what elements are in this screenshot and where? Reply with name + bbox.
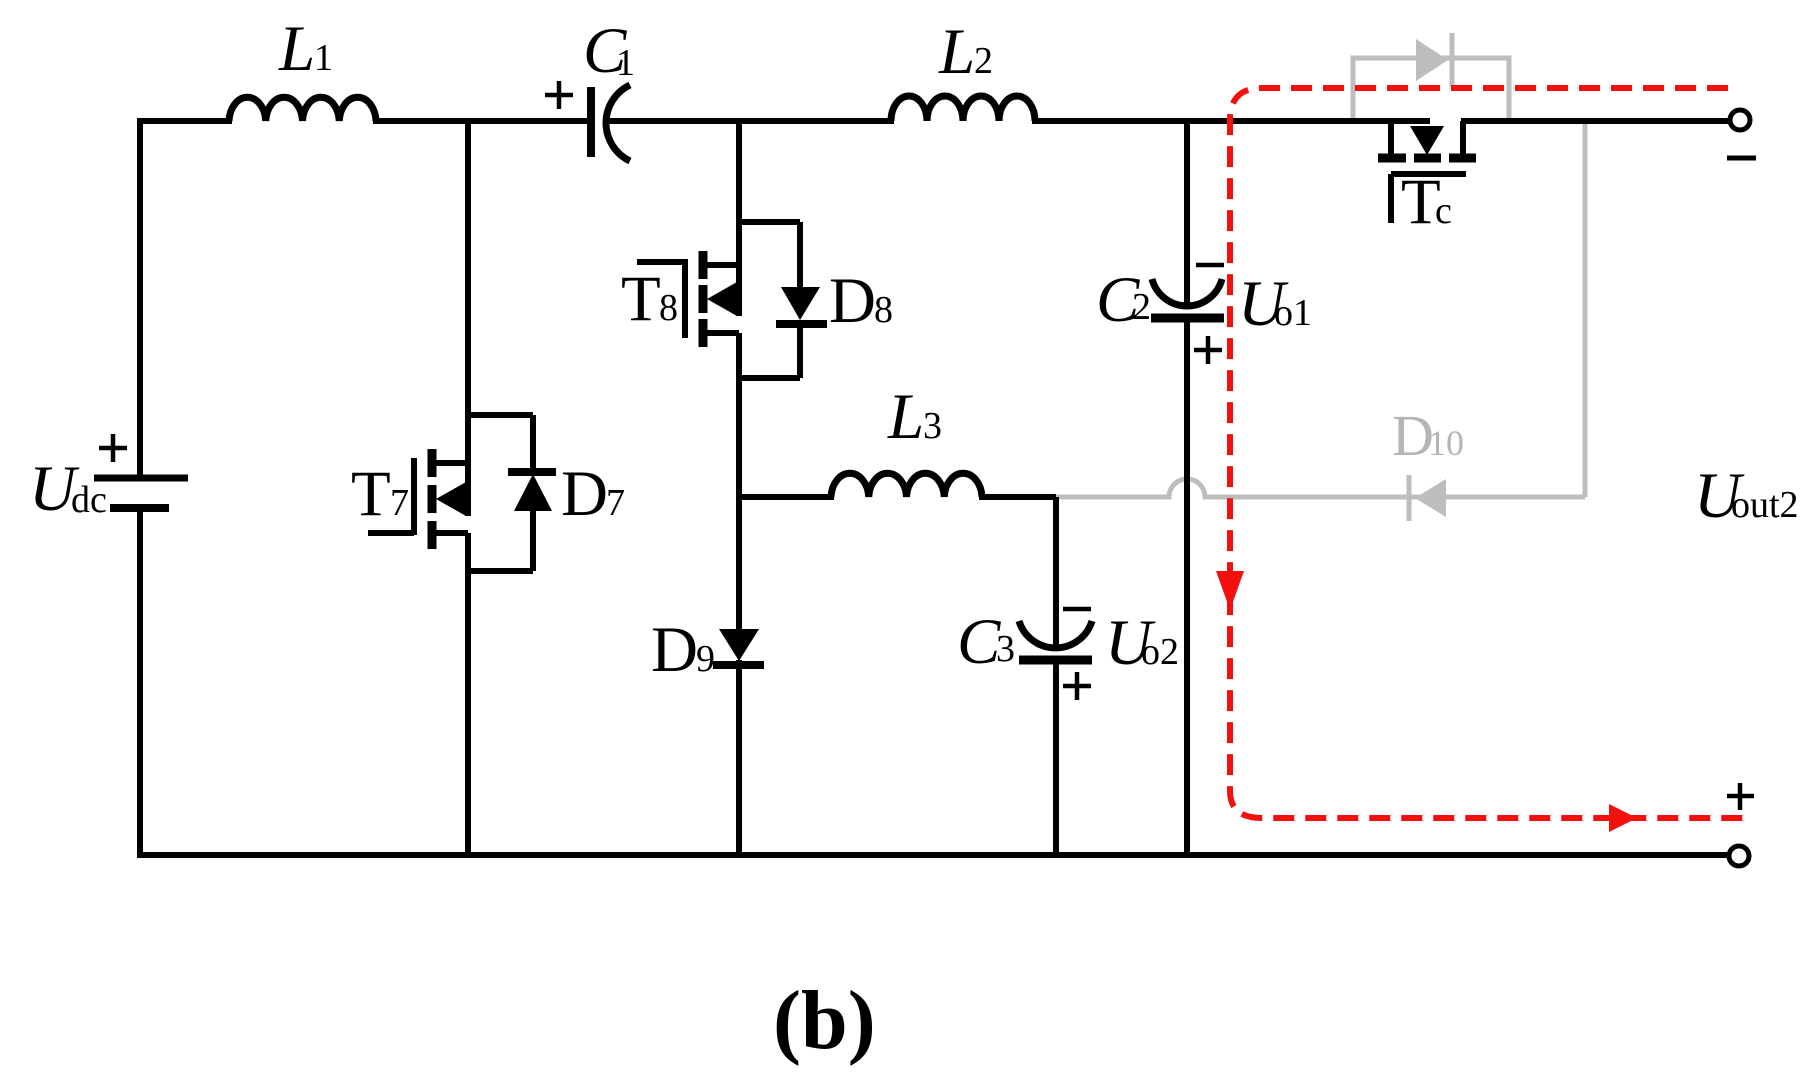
svg-text:C: C bbox=[957, 606, 1001, 678]
svg-text:L: L bbox=[887, 381, 924, 453]
svg-text:(b): (b) bbox=[773, 974, 876, 1067]
svg-text:2: 2 bbox=[1132, 286, 1151, 328]
svg-text:9: 9 bbox=[696, 638, 715, 680]
svg-text:8: 8 bbox=[874, 289, 893, 331]
svg-text:3: 3 bbox=[923, 405, 942, 447]
svg-text:c: c bbox=[1435, 190, 1452, 232]
svg-text:T: T bbox=[351, 458, 391, 530]
svg-text:3: 3 bbox=[996, 628, 1015, 670]
svg-text:L: L bbox=[938, 16, 975, 88]
svg-text:T: T bbox=[621, 263, 661, 335]
svg-text:8: 8 bbox=[659, 287, 678, 329]
svg-text:D: D bbox=[561, 458, 608, 530]
svg-text:o1: o1 bbox=[1274, 292, 1312, 334]
svg-text:10: 10 bbox=[1428, 423, 1464, 463]
svg-text:dc: dc bbox=[71, 479, 107, 521]
svg-text:7: 7 bbox=[606, 482, 625, 524]
svg-text:out2: out2 bbox=[1731, 484, 1799, 526]
svg-text:1: 1 bbox=[314, 37, 333, 79]
svg-text:o2: o2 bbox=[1141, 631, 1179, 673]
svg-text:D: D bbox=[651, 614, 698, 686]
svg-text:7: 7 bbox=[390, 482, 409, 524]
svg-text:1: 1 bbox=[616, 42, 635, 84]
svg-text:L: L bbox=[278, 13, 315, 85]
svg-text:2: 2 bbox=[974, 40, 993, 82]
svg-text:D: D bbox=[829, 265, 876, 337]
